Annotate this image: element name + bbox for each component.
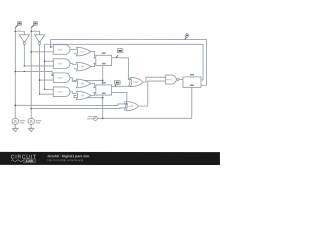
inverter NOT1 — [19, 35, 29, 42]
svg-text:OR: OR — [81, 51, 85, 53]
latch box U2 — [96, 85, 112, 95]
junction A / AND3 tap — [15, 71, 17, 73]
clock source glyph — [94, 118, 96, 119]
label U1 type — [102, 63, 106, 65]
wire B tap to AND1 — [31, 51, 53, 53]
svg-text:OR: OR — [81, 66, 85, 68]
wire B to NOT2 input — [31, 31, 39, 35]
junction B / XOR2 tap — [30, 108, 32, 110]
junction A / NOT1 tap — [15, 30, 17, 32]
wire feedback vertical 1 — [51, 39, 54, 47]
wire box2 clock tap to OR4 — [74, 95, 103, 97]
node B bus wire — [30, 27, 32, 118]
gate AND1 — [53, 45, 70, 55]
wire AND2 out to OR2 — [70, 63, 76, 66]
wire box3 clock pin down — [191, 86, 193, 118]
wire box2 Q to XOR1 lower input — [110, 85, 130, 87]
wire OR3 out to box2 S — [91, 83, 95, 87]
wire box1 bottom tap to OR3 — [74, 79, 103, 82]
wire B long tap to XOR2 — [31, 107, 126, 110]
wire XOR1 out to NAND — [143, 77, 166, 82]
wire /B bus — [39, 45, 53, 95]
wire OR1 out to box1 S — [91, 52, 95, 58]
junction /A / AND2 tap — [24, 65, 25, 66]
wire box1 Q to XOR1 — [110, 58, 131, 80]
label U3 type — [190, 84, 194, 86]
junction /B / AND4 tap — [39, 93, 40, 94]
junction box2 pin / OR4 tap — [102, 97, 104, 99]
wire feedback 2 tap AND2 — [45, 60, 54, 62]
svg-text:AND: AND — [58, 62, 63, 65]
wire clock source to box3 — [97, 117, 191, 119]
footer bar — [0, 152, 220, 165]
svg-text:AND: AND — [58, 91, 63, 94]
svg-text:AND: AND — [58, 77, 63, 80]
wire V1 to ground — [14, 125, 16, 129]
flag node Q — [185, 34, 189, 40]
gate AND2 — [53, 59, 70, 69]
flip-flop box U3 — [183, 77, 201, 87]
wire /A bus — [24, 45, 53, 66]
gate OR3 — [76, 79, 91, 88]
junction box1 pin / OR3 tap — [102, 80, 104, 82]
wire box2 Qb down to XOR2 — [110, 93, 127, 104]
gate AND3 — [53, 73, 70, 83]
junction /B / AND3 tap — [39, 79, 41, 81]
footer text — [47, 154, 90, 162]
wire A to NOT1 input — [15, 31, 24, 35]
svg-text:XOR: XOR — [133, 82, 138, 84]
source V2 waveform glyph — [29, 120, 33, 122]
clock source V3 — [93, 116, 97, 120]
gate XOR2 — [126, 102, 139, 111]
source V1 waveform glyph — [14, 120, 18, 122]
junction box2 Qb / XOR2 input — [126, 103, 128, 105]
label U1 name — [102, 52, 106, 54]
label U2 name — [102, 82, 106, 84]
wire OR2 out to box1 R — [91, 63, 95, 66]
label U2 type — [102, 92, 106, 94]
label U3 name — [190, 74, 194, 76]
junction B / AND1 tap — [30, 51, 32, 53]
wire top feedback Qb — [45, 44, 204, 80]
source V1 — [12, 118, 18, 124]
wire A long tap to XOR2 — [15, 104, 126, 106]
gate OR2 — [76, 62, 91, 71]
wire A tap to AND3 — [15, 71, 53, 75]
clock source value text — [87, 116, 92, 119]
ground for V2 — [28, 128, 34, 132]
flag node Q1 — [116, 49, 123, 58]
svg-text:OR: OR — [81, 95, 85, 97]
junction feedback / AND2 tap — [44, 60, 46, 62]
CircuitLab logo — [11, 154, 37, 163]
inverter NOT2 — [34, 35, 44, 42]
source V2 value text — [36, 120, 42, 124]
svg-text:NAND: NAND — [166, 78, 173, 81]
junction /A crossing — [24, 71, 25, 72]
wire NAND out to box3 — [179, 79, 184, 81]
ground for V1 — [12, 128, 18, 132]
gate XOR1 — [130, 77, 143, 86]
junction B / NOT2 tap — [30, 30, 32, 32]
wire top feedback Q — [50, 39, 206, 85]
wire XOR2 out to NAND — [138, 81, 165, 106]
wire feedback vertical 2 — [44, 44, 53, 89]
wire OR4 out to box2 R — [91, 93, 95, 96]
svg-text:OR: OR — [81, 83, 85, 85]
wire AND4 out to OR4 — [70, 92, 76, 94]
node A bus wire — [14, 27, 16, 118]
wire AND3 out to OR3 — [70, 78, 76, 82]
latch box U1 — [96, 55, 112, 65]
junction feedback / AND4 tap — [44, 89, 45, 90]
wire V2 to ground — [30, 125, 32, 129]
wire /B tap to AND3 — [40, 79, 54, 81]
svg-text:http://circuitlab.com/c9uaz9j: http://circuitlab.com/c9uaz9j — [47, 158, 83, 162]
wire OR2 second input stub — [74, 68, 77, 70]
wire OR1 second input stub — [74, 53, 77, 55]
junction feedback / AND1 tap — [50, 46, 51, 47]
svg-text:LAB: LAB — [26, 159, 33, 163]
source V1 value text — [20, 120, 26, 124]
svg-text:XOR: XOR — [128, 106, 133, 108]
wire box2 bottom pin to clock line — [102, 94, 104, 119]
flag node A — [15, 22, 21, 28]
wire box1 bottom pin to box2 top pin — [102, 64, 104, 86]
gate AND4 — [53, 87, 70, 97]
junction clock wire — [102, 117, 104, 119]
junction A / XOR2 tap — [14, 105, 16, 107]
source V2 — [28, 118, 34, 124]
gate OR1 — [76, 47, 91, 56]
svg-text:AND: AND — [58, 48, 63, 51]
junction A drop / AND3 tap — [52, 75, 53, 76]
flag node Q2 — [115, 80, 121, 86]
flag node B — [31, 22, 37, 28]
wire AND1 out to OR1 — [70, 48, 76, 50]
gate OR4 — [76, 91, 91, 100]
gate NAND — [165, 75, 176, 84]
